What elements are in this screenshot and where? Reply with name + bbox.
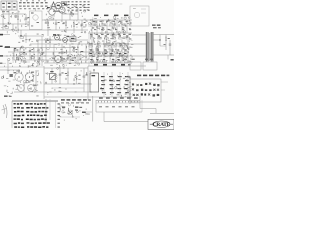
inspection stamp bbox=[51, 2, 62, 12]
wire ticks bbox=[4, 66, 37, 67]
serial text ticks bbox=[98, 101, 138, 103]
svg-text:CRATE: CRATE bbox=[153, 122, 171, 128]
left band speckle bbox=[8, 33, 46, 68]
power cord P1 bbox=[82, 112, 92, 114]
bus wire bbox=[6, 55, 132, 57]
coupling capacitors C4-C7 bbox=[92, 24, 126, 28]
wire bbox=[20, 30, 22, 36]
resistor R6 bbox=[70, 12, 74, 15]
wire bbox=[49, 99, 51, 120]
connector J1 pin table bbox=[68, 1, 90, 10]
wire bbox=[44, 29, 88, 31]
left lower speckle bbox=[1, 70, 41, 97]
top label row 1 bbox=[19, 2, 48, 3]
bus wire bbox=[14, 91, 92, 93]
note smudge bbox=[106, 3, 122, 6]
wire bbox=[132, 55, 146, 57]
wire bbox=[132, 43, 146, 45]
node B bbox=[159, 39, 160, 40]
power supply box U1 bbox=[130, 6, 149, 26]
footswitch labels bbox=[99, 97, 138, 98]
wire bbox=[23, 82, 25, 92]
speaker jack J6 bbox=[168, 55, 174, 61]
wire bbox=[62, 13, 78, 15]
transistor Q2 bbox=[63, 36, 70, 43]
capacitor C1 bbox=[25, 14, 30, 24]
wire bbox=[153, 54, 174, 56]
upper-right speckle bbox=[88, 16, 131, 34]
preamp tube V1 box bbox=[30, 8, 43, 30]
wire bbox=[69, 14, 71, 20]
node A bbox=[8, 23, 9, 24]
capacitor C12 bbox=[164, 40, 172, 55]
input jack J2 bbox=[0, 34, 10, 36]
wire bbox=[3, 13, 26, 15]
wire bbox=[150, 113, 174, 115]
center lower speckle bbox=[45, 67, 91, 94]
resistor R4 bbox=[63, 20, 67, 33]
bus wire bbox=[4, 47, 76, 49]
wire bbox=[103, 112, 105, 122]
capacitor C11 bbox=[67, 56, 71, 58]
resistor R9 bbox=[23, 52, 27, 55]
wire bbox=[35, 70, 37, 92]
resistor R15 bbox=[72, 57, 76, 61]
potentiometer VR4 bbox=[28, 85, 36, 92]
label bbox=[75, 107, 82, 111]
wire bbox=[0, 29, 44, 31]
fuse F1 bbox=[62, 2, 67, 6]
relay K1 bbox=[70, 37, 76, 42]
bus wire bbox=[18, 35, 44, 37]
wire bbox=[88, 33, 90, 66]
wire bbox=[51, 68, 53, 84]
upper-middle speckle bbox=[46, 5, 89, 34]
wire bbox=[77, 8, 79, 20]
fuse F2 bbox=[68, 110, 73, 115]
chassis ground bus bbox=[96, 100, 140, 112]
bus wire bbox=[88, 65, 146, 67]
label under TB1 bbox=[2, 11, 9, 12]
wire drops right bbox=[92, 40, 128, 63]
bus wire bbox=[0, 66, 44, 68]
wire bbox=[52, 87, 84, 89]
bottom speckle bbox=[59, 102, 90, 121]
wire drops mid bbox=[46, 44, 86, 63]
right lower speckle bbox=[101, 73, 132, 97]
input jack J4 bbox=[0, 55, 8, 56]
wire bbox=[132, 34, 146, 36]
top label row 2 bbox=[19, 0, 48, 9]
wire bbox=[96, 111, 142, 113]
parts list text bbox=[14, 103, 50, 128]
bus wire bbox=[44, 62, 132, 64]
bus wire bbox=[0, 69, 20, 71]
upper-left speckle bbox=[1, 12, 29, 34]
bias network labels bbox=[100, 76, 129, 93]
wire bbox=[45, 99, 47, 124]
parts table frame bbox=[12, 101, 58, 128]
wire bbox=[60, 116, 80, 118]
wire bbox=[37, 40, 39, 66]
output transformer T1 secondary bbox=[151, 32, 153, 62]
label cluster bbox=[152, 25, 161, 29]
potentiometer VR2 bbox=[25, 70, 34, 81]
label row bbox=[99, 106, 135, 107]
wire bbox=[129, 78, 131, 104]
tone network array R16-R45 bbox=[89, 36, 130, 63]
switch SW1 bbox=[60, 104, 65, 112]
CRATE logo block bbox=[148, 119, 174, 129]
wire bbox=[25, 33, 27, 43]
input jack J3 bbox=[0, 46, 10, 48]
diode D2 bbox=[75, 72, 81, 84]
resistor R5 bbox=[73, 20, 77, 33]
label bbox=[22, 40, 24, 43]
test point box TP1 bbox=[130, 59, 141, 70]
bus wire bbox=[44, 96, 132, 98]
input jack J5 bbox=[0, 63, 6, 64]
bus wire bbox=[44, 67, 88, 69]
resistor R8 bbox=[14, 48, 18, 51]
capacitor C10 bbox=[59, 52, 63, 53]
handwritten mark bbox=[2, 104, 8, 118]
wire bbox=[41, 36, 43, 66]
wire bbox=[88, 25, 132, 27]
wire bbox=[44, 19, 88, 21]
wire color labels bbox=[137, 75, 169, 77]
capacitor C13 bbox=[59, 68, 64, 84]
capacitor C9 bbox=[17, 56, 21, 59]
bus wire bbox=[8, 51, 110, 53]
wire bbox=[104, 121, 150, 123]
wire bbox=[8, 10, 10, 24]
resistor R41 bbox=[65, 68, 69, 84]
wire bbox=[140, 108, 156, 110]
wire bbox=[153, 35, 160, 47]
mid band speckle bbox=[45, 34, 90, 69]
capacitor C3 bbox=[81, 20, 86, 33]
wire bbox=[0, 23, 30, 25]
indicator lamp DS1 bbox=[10, 74, 13, 77]
wire bbox=[43, 66, 45, 99]
cap labels row bbox=[93, 21, 131, 30]
tube V3 bbox=[59, 3, 67, 20]
bus wire bbox=[12, 59, 88, 61]
resistor R12 bbox=[47, 36, 51, 48]
bus wire bbox=[44, 83, 92, 85]
wire drops left bbox=[14, 48, 34, 60]
tube V4 bbox=[53, 56, 62, 63]
wire bbox=[161, 82, 168, 90]
tube V2 bbox=[47, 4, 55, 20]
resistor R2 bbox=[5, 25, 9, 28]
resistor R13 bbox=[73, 48, 77, 52]
table row labels bbox=[58, 103, 60, 127]
potentiometer VR3 bbox=[16, 85, 24, 92]
bus wire bbox=[36, 39, 88, 41]
wire bbox=[87, 66, 89, 100]
wire bbox=[7, 60, 9, 74]
resistor R7 bbox=[20, 35, 24, 38]
mains label bbox=[61, 99, 91, 103]
right band speckle bbox=[88, 34, 134, 64]
label bbox=[4, 96, 12, 97]
wire bbox=[153, 34, 174, 36]
transistor Q1 bbox=[53, 34, 60, 40]
wire bbox=[88, 32, 132, 34]
label row channel bbox=[94, 15, 128, 17]
bridge rectifier BR1 bbox=[50, 71, 56, 80]
resistor R40 bbox=[165, 35, 170, 51]
wire bbox=[139, 96, 141, 109]
power transformer T2 terminal board bbox=[130, 79, 161, 102]
wire bus drops bbox=[92, 20, 127, 33]
resistor R3 bbox=[45, 20, 49, 36]
wire bbox=[2, 10, 4, 30]
capacitor C2 bbox=[55, 20, 60, 30]
wire bbox=[92, 96, 94, 122]
wire bbox=[160, 45, 166, 47]
terminal block TB1 bbox=[1, 1, 17, 10]
capacitor C8 bbox=[29, 49, 33, 52]
test point box TP2 bbox=[143, 59, 157, 70]
label V1 bbox=[31, 13, 39, 27]
node C bbox=[45, 41, 46, 42]
resistor R14 bbox=[63, 58, 67, 61]
stage labels row bbox=[94, 64, 131, 66]
wire bbox=[42, 19, 54, 21]
output transformer T1 primary bbox=[146, 32, 148, 62]
bus wire bbox=[30, 43, 132, 45]
resistor R1 bbox=[15, 10, 19, 33]
resistor R10 bbox=[31, 55, 35, 58]
capacitor C14 bbox=[83, 68, 88, 92]
wire bbox=[12, 24, 14, 30]
junction dots bbox=[91, 43, 128, 56]
transformer T1 core bbox=[148, 33, 151, 61]
wire grid bbox=[104, 72, 128, 97]
net labels row bbox=[90, 34, 131, 35]
potentiometer VR1 bbox=[14, 70, 24, 81]
wire bbox=[155, 109, 157, 114]
wire bbox=[88, 19, 132, 21]
power amp IC U3 bbox=[90, 69, 99, 92]
wire bbox=[141, 100, 143, 112]
diode D1 bbox=[20, 61, 30, 64]
op-amp U2 bbox=[80, 51, 85, 59]
